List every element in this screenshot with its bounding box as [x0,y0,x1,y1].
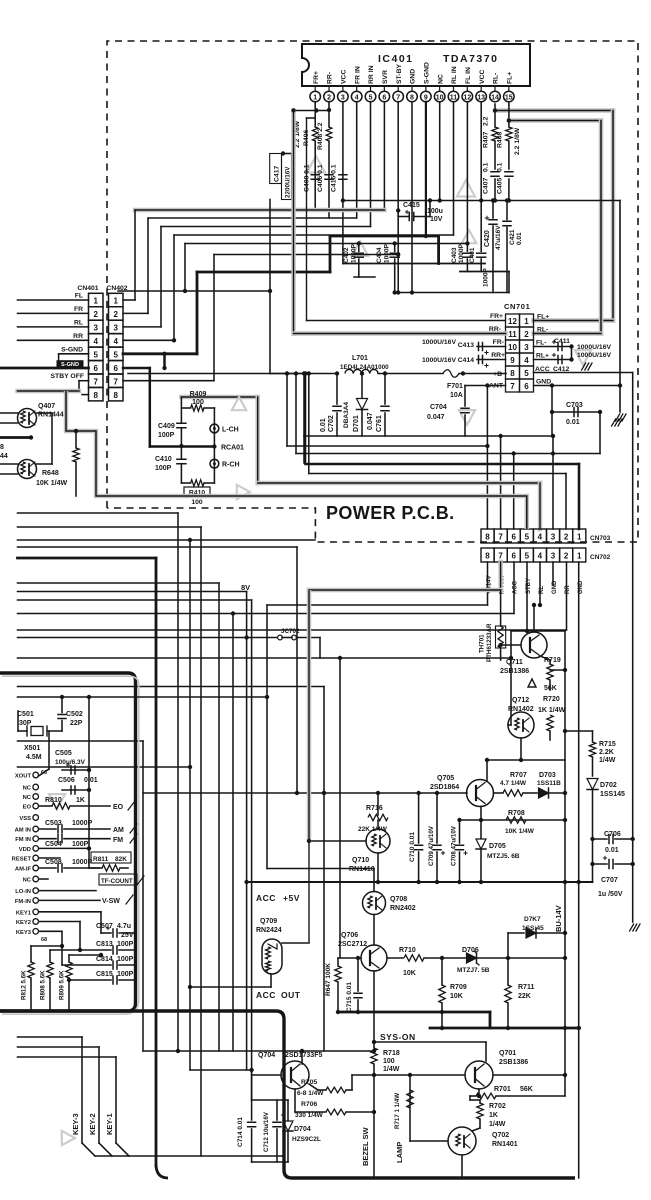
svg-text:JC702: JC702 [281,628,300,635]
capacitor C407 0.1 [491,171,499,173]
svg-text:RL-: RL- [537,327,548,334]
svg-text:FM IN: FM IN [15,837,31,843]
wire Q705 emitter down [480,807,482,821]
jack L-CH [210,424,219,433]
svg-text:FL IN: FL IN [465,67,472,84]
wire R711 top riser [507,933,509,958]
svg-text:C410: C410 [155,456,172,463]
wire AM IN + capacitor C503 1000P [39,828,56,830]
svg-text:2: 2 [524,330,529,339]
wire Q711 bottom to R719 [540,656,550,660]
wire CN401 row5 S-GND jog [59,353,89,355]
svg-text:D705: D705 [489,843,506,850]
wire Q711 base [501,644,521,646]
wire pin6 SVR down [383,102,385,210]
wire KEY1 [39,911,101,913]
svg-text:ACC: ACC [256,990,276,1000]
node R710 right [440,956,444,960]
svg-text:NC: NC [437,74,444,84]
resistor R410 100 [181,482,190,484]
wire bold v156 corner into bottom [156,1164,168,1178]
wire bus-down right to ground [619,201,621,413]
svg-text:D704: D704 [294,1126,311,1133]
svg-text:KEY-3: KEY-3 [71,1113,80,1135]
svg-text:RR: RR [73,333,83,340]
wire v174 long vertical [173,235,175,340]
svg-text:C506: C506 [58,777,75,784]
svg-text:2: 2 [564,533,569,542]
wire bold x156 down [155,558,158,1166]
resistor R406 2.2 [312,127,318,141]
svg-text:8: 8 [93,391,98,400]
svg-text:C715 0.01: C715 0.01 [346,982,353,1012]
svg-text:C403: C403 [451,247,458,263]
node C707 left [590,862,594,866]
wire pin10 down [439,102,441,201]
wire S-GND row6 down bold [123,367,150,370]
svg-text:8: 8 [113,391,118,400]
svg-text:FR: FR [74,306,83,313]
node Q710 rail [376,880,380,884]
svg-text:V-SW: V-SW [102,898,120,905]
node C715 top [356,956,360,960]
node rail x508 [506,1026,510,1030]
svg-text:STBY OFF: STBY OFF [51,373,84,380]
svg-text:1000P: 1000P [384,244,391,263]
svg-text:SVR: SVR [382,70,389,84]
wire ground rail y436 [304,435,554,437]
svg-text:GND: GND [410,69,417,84]
wire y1075 long [352,1074,465,1076]
node bold y437 [29,435,33,439]
wire GND down x552 [551,386,553,437]
svg-text:C405: C405 [497,178,504,194]
svg-text:XOUT: XOUT [15,774,32,780]
svg-text:100: 100 [192,399,204,406]
node C709 top [435,791,439,795]
svg-text:4: 4 [93,337,98,346]
svg-text:2.2: 2.2 [483,116,490,126]
wire bold ring bottom [0,1011,575,1178]
wire S-GND tee row5 to row6 bold [163,354,166,368]
svg-text:RL: RL [74,320,83,327]
wire pin1 route to CN701 row12 [306,118,308,321]
transistor Q711 2SB1386 [521,632,547,658]
wire ST-BY line y254 [214,254,398,256]
svg-text:0.01: 0.01 [566,419,580,426]
node Q701 emitter [477,1094,481,1098]
svg-text:C414: C414 [458,357,474,364]
node x565 y670 [563,668,567,672]
wire v135 to CN402 row1 [134,210,136,300]
svg-text:C415: C415 [403,202,420,209]
wire v148 to CN402 row2 [147,218,149,313]
ground bottom right [636,924,640,931]
wire pin15 FL+ tap to right highway (highlighted) [508,102,510,121]
wire pin12 FL IN down [466,102,468,244]
CN401 row6 S-GND inverse label [57,360,84,367]
print artifact triangle [457,180,475,197]
svg-text:4: 4 [524,356,529,365]
op-amp IC U401 body IC401 TDA7370 [302,44,530,86]
svg-text:R-CH: R-CH [222,462,240,469]
svg-text:FL+: FL+ [506,72,513,84]
jack R-CH [210,459,219,468]
svg-text:2: 2 [93,310,98,319]
svg-text:R648: R648 [42,470,59,477]
wire x178 down [177,513,179,1051]
svg-text:R720: R720 [543,696,560,703]
svg-text:C411: C411 [554,338,570,345]
wire crystal top rail / bus y697 [18,696,268,698]
wire line y741 [18,740,144,742]
wire Q407 highlighted route to CN703-5 [18,389,80,394]
svg-text:1: 1 [93,297,98,306]
wire caps bottom y1162 [252,1161,288,1163]
svg-text:2SD1864: 2SD1864 [430,784,459,791]
wire Q704 collector [301,1051,303,1064]
wire CN702-1 down long vertical [578,562,580,1178]
wire FM IN + capacitor C504 100P [39,838,56,840]
svg-text:30P: 30P [19,720,32,727]
wire line y686 [18,686,325,688]
svg-text:7: 7 [113,377,118,386]
svg-text:MTZJ7. 5B: MTZJ7. 5B [457,967,490,974]
wire KEY-1 line [18,1036,83,1038]
svg-text:4: 4 [113,337,118,346]
wire x297 down to Q705 base line [296,547,298,793]
wire line y600 [18,599,252,601]
resistor R408 2.2 [326,127,332,141]
svg-text:Q710: Q710 [352,857,369,864]
wire JC702 right down [319,638,321,659]
wire bold jog x490 [489,1012,492,1028]
svg-text:FL-: FL- [536,340,547,347]
svg-text:RN1410: RN1410 [349,866,375,873]
wire FL-IN line y243 [185,243,467,245]
svg-text:6: 6 [524,382,529,391]
svg-text:3: 3 [551,552,556,561]
svg-text:2SB1386: 2SB1386 [499,1059,528,1066]
transistor Q708 RN2402 [373,869,375,892]
wire Q706 base [338,957,361,959]
svg-text:VCC: VCC [479,70,486,84]
svg-text:2: 2 [327,94,331,101]
svg-text:8: 8 [410,94,414,101]
node y767 x190 [188,765,192,769]
node ANT x487 [485,383,489,387]
node D701 top [360,371,364,375]
wire ACC riser x233 [232,614,234,1052]
svg-text:POWER P.C.B.: POWER P.C.B. [326,503,455,523]
node R718 top [372,1040,376,1044]
MCU pin VDD [33,846,39,852]
svg-text:1u /50V: 1u /50V [598,891,623,898]
svg-text:8: 8 [485,552,490,561]
node Q705 collector tee [485,758,489,762]
svg-text:RL+: RL+ [536,353,549,360]
wire ANT row7 [465,385,506,387]
wire v185 to +B spur [184,244,186,292]
svg-text:C501: C501 [17,711,34,718]
resistor R811 82K boxed [91,852,131,863]
wire line y583 [18,582,220,584]
MCU pin KEY2 [33,919,39,925]
wire pin13 VCC down [480,102,482,201]
capacitor C420 47u/16V [492,201,494,219]
wire bus y277 [354,276,375,278]
svg-text:100P: 100P [155,465,172,472]
wire Q702 emitter down [461,1155,463,1178]
wire +B main line y373 [128,373,337,375]
svg-text:2.2 1/8W: 2.2 1/8W [514,127,521,155]
node R648 top [74,429,78,433]
svg-text:7: 7 [498,533,503,542]
svg-text:2: 2 [564,552,569,561]
capacitor C406 0.1 [325,174,333,176]
svg-text:5: 5 [369,94,373,101]
svg-text:100P: 100P [117,941,134,948]
svg-text:100P: 100P [158,432,175,439]
capacitor C408 0.1 [311,174,319,176]
svg-text:100: 100 [383,1058,395,1065]
svg-text:D703: D703 [539,772,556,779]
print artifact triangle [352,241,368,256]
wire x246 down ACC 8V [246,592,248,1071]
wire Q407 base [0,412,18,414]
wire RL-IN line y235 [174,234,454,236]
wire Q702 base from LAMP [410,1140,448,1142]
svg-text:IC401: IC401 [378,53,414,65]
node box5 y631 [525,629,529,633]
node R812 KEY3 [60,944,64,948]
wire CN401 row8 stub [82,394,89,396]
diode D701 DBA3A4 [361,374,363,399]
wire y1051 link [143,1050,374,1052]
wire KEY3 [39,930,62,932]
wire pin5 RR IN down [370,102,372,227]
svg-text:VCC: VCC [340,70,347,84]
node GND x552 [550,383,554,387]
node y1051 v374 [372,1049,376,1053]
wire Q408 base [0,463,18,465]
svg-text:0.047: 0.047 [427,414,445,421]
resistor R715 2.2K 1/4W [592,731,594,742]
print artifact triangle [237,485,250,499]
wire Q701 emitter down [478,1089,480,1096]
svg-text:9: 9 [510,356,515,365]
wire pin3 VCC down [342,102,344,264]
node C708 top [457,818,461,822]
svg-text:NC: NC [23,878,32,884]
node C415 [396,208,400,212]
svg-text:KEY-2: KEY-2 [88,1113,97,1135]
MCU pin FM IN [33,836,39,842]
transistor Q710 RN1410 [366,829,390,853]
svg-text:4: 4 [355,94,359,101]
wire highway x613 down to CN701 row1 (highlighted) [611,111,616,321]
node y958 x565 [563,956,567,960]
svg-text:14: 14 [491,94,499,101]
wire line y593 8V [18,591,247,593]
wire y464 to CN703-1 (bold) [304,374,306,465]
wire S-GND bold line y272 [197,271,330,274]
svg-text:C505: C505 [55,750,72,757]
node C420 top [491,198,495,202]
svg-text:R408: R408 [497,132,504,148]
node C703 left [550,410,554,414]
svg-text:10K 1/4W: 10K 1/4W [505,828,535,835]
svg-text:C707: C707 [601,877,618,884]
wire Q706 emitter down [373,971,375,1042]
wire pin1 tap [314,102,316,127]
svg-text:L701: L701 [352,355,368,362]
wire Q708 to Q706 [373,915,375,946]
wire right highway x632 down [632,373,634,923]
node Q704 collector [300,1049,304,1053]
svg-text:PTH61233AR: PTH61233AR [486,623,493,662]
svg-text:4: 4 [538,533,543,542]
wire KEY2 [39,921,80,923]
svg-text:1: 1 [113,297,118,306]
node C417 top [281,151,285,155]
svg-text:RR IN: RR IN [368,65,375,84]
MCU pin NC [33,794,39,800]
svg-text:1/4W: 1/4W [489,1121,506,1128]
node pin10 on bus [438,198,442,202]
wire line y527 [18,526,202,528]
svg-text:7: 7 [498,552,503,561]
wire rail down x500 to CN703-7 [500,436,502,529]
svg-text:C813: C813 [96,941,113,948]
svg-text:100P: 100P [117,971,134,978]
svg-text:VSS: VSS [19,816,31,822]
wire Q711 top [533,605,535,632]
diode D702 1SS145 [587,779,598,790]
svg-text:6: 6 [113,364,118,373]
node Q710 top [376,791,380,795]
wire S-GND to RCA01 bold [150,445,215,448]
svg-text:CN401: CN401 [77,285,98,292]
wire pin1 lower [314,141,316,210]
svg-text:EO: EO [113,804,124,811]
wire VDD riser x89 [88,697,90,848]
svg-text:R702: R702 [489,1103,506,1110]
wire grey line y397 to CN703-4 feeder [181,395,257,400]
node y453 x513 [512,451,516,455]
svg-text:GND: GND [536,379,551,386]
svg-text:FL+: FL+ [537,314,549,321]
svg-text:100u: 100u [427,208,443,215]
flag TF-COUNT [99,874,137,885]
print artifact arrow [232,397,246,410]
inductor L701 1ED4L24A01000 [345,369,378,373]
wire ANT down to CN703-8 [486,386,488,530]
svg-text:FM: FM [113,837,123,844]
wire RR-IN line y226 [161,226,371,228]
svg-text:47u/16V: 47u/16V [495,225,502,250]
wire x251 down [251,600,253,1100]
node R647 GND [336,1010,340,1014]
wire SVR line y210 (highlighted) [135,208,384,213]
wire x565 vertical [564,631,566,1096]
wire x309 from CN702-7 (highlighted) [307,590,312,841]
svg-text:1000P: 1000P [458,244,465,263]
wire Q407/Q408 collector join [37,412,53,414]
wire +B riser x270 [269,199,271,373]
wire y1156 [95,1155,284,1157]
MCU pin VSS [33,815,39,821]
svg-text:7: 7 [396,94,400,101]
svg-text:10A: 10A [450,392,463,399]
wire rail y1028 [430,1027,579,1030]
wire NC stub [39,878,48,880]
svg-text:8: 8 [485,533,490,542]
svg-text:10K: 10K [403,970,416,977]
node C706 right [631,837,635,841]
wire v214 STBY [213,255,215,381]
svg-text:0.01: 0.01 [605,847,619,854]
wire S-GND bold jog up [329,236,332,272]
node C707 right [631,862,635,866]
svg-text:R709: R709 [450,984,467,991]
svg-text:Q709: Q709 [260,918,277,925]
svg-text:R811: R811 [93,856,109,863]
POWER P.C.B. dashed boundary [107,41,638,542]
svg-text:R707: R707 [510,772,527,779]
svg-text:C420: C420 [484,230,491,247]
svg-text:LAMP: LAMP [395,1142,404,1163]
svg-text:6: 6 [511,533,516,542]
ground right of C703 [618,419,622,426]
svg-text:1K 1/4W: 1K 1/4W [538,707,566,714]
wire x143 down [142,741,144,1051]
wire CN702-5 STBY down to y631 [526,562,528,631]
wire GND row6 [534,385,621,387]
wire +B down leg x304 [303,374,305,437]
svg-text:C413: C413 [458,342,474,349]
svg-text:1000P: 1000P [72,820,93,827]
wire bold GND bus y1012 [338,1011,490,1014]
wire MCU bold ring grey fringe [2,676,139,1014]
wire GND down to CN703-3 [552,436,554,529]
IC401 pin 11 RL IN [453,86,455,91]
capacitor C704 0.047 [464,386,466,407]
print artifact triangle [575,350,591,365]
node C706 left [590,837,594,841]
svg-text:13: 13 [477,94,485,101]
MCU pin LO-IN [33,888,39,894]
wire ACC row5 to right highway [534,372,633,374]
wire RESET stub [39,857,60,859]
svg-text:3: 3 [113,324,118,333]
svg-text:C702: C702 [328,415,335,432]
svg-text:C406 0.1: C406 0.1 [317,164,324,192]
svg-text:1/4W: 1/4W [383,1066,400,1073]
svg-text:L-CH: L-CH [222,427,239,434]
svg-text:15: 15 [505,94,513,101]
svg-text:KEY-1: KEY-1 [105,1113,114,1135]
svg-text:Q702: Q702 [492,1132,509,1139]
node rail x553 [551,434,555,438]
wire y1070 Q704 base feed [190,1069,252,1071]
node Q711 top on y605 [532,603,536,607]
svg-text:NC: NC [23,786,32,792]
svg-text:TH701: TH701 [479,634,486,653]
svg-text:RN2402: RN2402 [390,905,416,912]
svg-text:FL: FL [75,293,83,300]
node +B x337 [335,371,339,375]
